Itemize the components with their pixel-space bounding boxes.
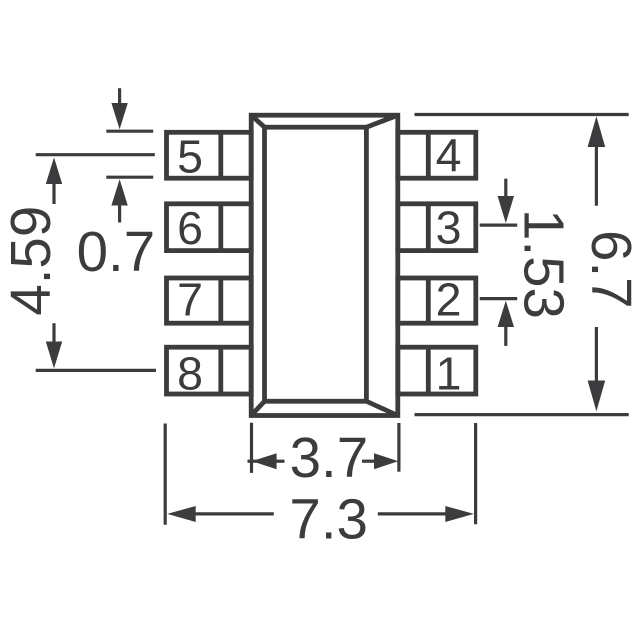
extension line pins right (7.3) (474, 423, 477, 524)
pin 4 box (398, 132, 476, 178)
extension line pin2 (1.53 lower) (480, 297, 518, 300)
pin 3 divider (426, 204, 431, 251)
svg-text:4.59: 4.59 (0, 206, 62, 316)
pin 2 box (398, 278, 476, 323)
svg-text:3: 3 (436, 202, 462, 254)
body chamfer diagonal bottom-right (366, 401, 397, 415)
pin 6 divider (218, 204, 223, 251)
extension line body left (3.7) (250, 423, 253, 473)
pin 8 box (167, 347, 252, 394)
pin 1 box (398, 347, 476, 394)
package body outer outline (251, 115, 398, 415)
svg-text:4: 4 (436, 129, 462, 181)
arrow up 6.7 top (588, 116, 606, 147)
arrow down to pin5 top (0.7 dim upper) (118, 88, 121, 106)
svg-text:6: 6 (177, 202, 203, 254)
pin 2 divider (426, 278, 431, 323)
package body top-face inner outline (265, 127, 367, 401)
extension line pins left (7.3) (164, 424, 167, 525)
arrow down 4.59 dim bottom (52, 323, 55, 342)
pin 5 box (167, 132, 252, 178)
body chamfer diagonal top-left (251, 115, 264, 127)
svg-text:7: 7 (177, 274, 203, 326)
pin 1 divider (426, 347, 431, 394)
svg-text:5: 5 (177, 130, 203, 182)
arrow up 1.53 lower (498, 301, 514, 327)
pin 8 divider (218, 347, 223, 394)
arrow left 7.3 (167, 506, 196, 522)
extension line pin3 (1.53 upper) (480, 224, 518, 227)
pin 7 box (167, 278, 252, 323)
svg-text:2: 2 (436, 274, 462, 326)
arrow up 4.59 dim top (46, 157, 62, 184)
pin 6 box (167, 204, 252, 251)
svg-text:0.7: 0.7 (77, 220, 156, 283)
svg-text:1: 1 (436, 347, 462, 399)
svg-text:3.7: 3.7 (290, 426, 369, 489)
arrow right 3.7 (362, 460, 375, 463)
svg-text:7.3: 7.3 (289, 488, 368, 551)
extension line body bottom (6.7) (415, 413, 629, 416)
extension line pin5 bottom edge (106, 176, 153, 179)
extension line body right (3.7) (397, 423, 400, 472)
extension line pin8 centerline (36, 369, 156, 372)
extension line pin5 centerline (36, 153, 155, 156)
pin 3 box (398, 204, 476, 251)
extension line pin5 top edge (106, 130, 153, 133)
pin 4 divider (426, 132, 431, 178)
arrow left 3.7 (248, 460, 258, 463)
pin 7 divider (218, 278, 223, 323)
arrow up to pin5 bottom (0.7 dim lower) (111, 179, 127, 205)
extension line body top (6.7) (415, 113, 629, 116)
arrow down 1.53 upper (504, 179, 507, 197)
svg-text:6.7: 6.7 (580, 230, 640, 309)
svg-text:1.53: 1.53 (512, 209, 575, 319)
body chamfer diagonal top-right (366, 115, 397, 127)
arrow down 6.7 bottom (595, 327, 598, 381)
arrow right 7.3 (378, 512, 447, 515)
body chamfer diagonal bottom-left (251, 401, 264, 415)
svg-text:8: 8 (177, 347, 203, 399)
pin 5 divider (218, 132, 223, 178)
